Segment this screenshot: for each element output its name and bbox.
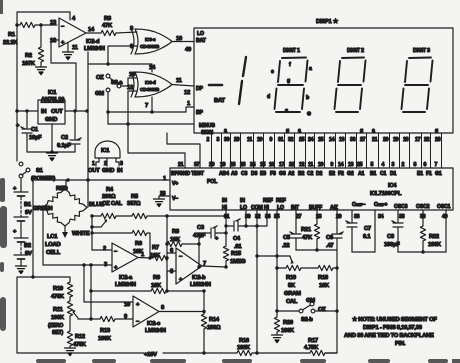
svg-text:a: a	[309, 66, 312, 72]
svg-text:B2: B2	[24, 243, 31, 249]
svg-text:C3: C3	[241, 171, 248, 177]
svg-text:27: 27	[360, 137, 366, 143]
svg-text:E3: E3	[260, 171, 266, 177]
svg-text:IC1: IC1	[48, 90, 57, 96]
svg-text:25: 25	[299, 137, 305, 143]
svg-text:23: 23	[435, 137, 441, 143]
battery B1 9V	[13, 178, 32, 238]
svg-text:9: 9	[270, 137, 273, 143]
svg-text:1: 1	[92, 161, 95, 167]
svg-text:9V: 9V	[25, 210, 32, 216]
svg-text:40: 40	[185, 47, 191, 53]
svg-text:IC2-d: IC2-d	[86, 39, 100, 45]
segment letters digit 1	[267, 62, 312, 114]
resistor R21 47K	[301, 210, 320, 252]
wire GM contact down to minus-sign net	[106, 92, 109, 124]
svg-text:19: 19	[393, 137, 399, 143]
svg-text:MINUS: MINUS	[199, 123, 215, 129]
wire S2-b contacts	[277, 310, 337, 312]
svg-text:OUT: OUT	[88, 168, 100, 174]
ground under R2	[36, 67, 47, 75]
svg-text:+10V: +10V	[144, 352, 157, 358]
svg-text:R22: R22	[429, 234, 439, 240]
display BP pin	[196, 110, 204, 116]
svg-text:15: 15	[318, 137, 324, 143]
svg-text:+: +	[16, 123, 20, 129]
svg-text:24: 24	[250, 162, 256, 168]
svg-text:ICL7106CPL: ICL7106CPL	[370, 191, 402, 197]
resistor R20 100K	[274, 317, 295, 334]
svg-text:BP: BP	[196, 110, 204, 116]
ground pin 11 IC2-d	[63, 43, 74, 60]
wire V+ feed to IC4 pin 1	[33, 176, 170, 182]
svg-text:OUT: OUT	[51, 109, 63, 115]
svg-text:R14: R14	[209, 317, 220, 323]
wire IC2-d output	[86, 32, 101, 34]
IC4 V+ pin 1	[172, 181, 178, 187]
svg-text:A3: A3	[231, 171, 238, 177]
resistor R15 1MEG	[223, 246, 246, 269]
svg-text:PIN.: PIN.	[395, 341, 406, 347]
svg-text:R13: R13	[100, 328, 111, 334]
svg-text:g: g	[360, 128, 363, 134]
resistor R12 475K	[67, 331, 87, 348]
resistor R1 22.1K	[3, 22, 57, 46]
svg-text:GM: GM	[306, 298, 315, 304]
svg-text:LM324N: LM324N	[190, 282, 211, 288]
seven-segment digit 2	[335, 58, 366, 113]
svg-text:27: 27	[296, 214, 302, 220]
svg-text:20: 20	[383, 137, 389, 143]
decimal point dot	[307, 111, 312, 116]
svg-text:0.1µF: 0.1µF	[57, 143, 71, 149]
svg-text:R5: R5	[131, 194, 139, 200]
svg-text:IN: IN	[117, 168, 122, 174]
svg-text:–: –	[179, 254, 183, 260]
svg-text:F3: F3	[270, 171, 276, 177]
svg-text:BP/GND TEST: BP/GND TEST	[171, 171, 205, 177]
svg-text:8: 8	[161, 305, 165, 311]
svg-text:C4: C4	[233, 236, 241, 242]
svg-text:E2: E2	[329, 171, 335, 177]
svg-text:GND: GND	[45, 117, 57, 123]
svg-text:CREF+: CREF+	[374, 202, 388, 208]
svg-text:f: f	[289, 62, 291, 68]
svg-text:37: 37	[194, 162, 200, 168]
wire IC2-b output	[202, 266, 226, 267]
svg-text:LM324N: LM324N	[84, 46, 105, 52]
white lead ground arrow	[62, 226, 68, 238]
regulator IC1 AN78L10	[38, 90, 65, 124]
svg-text:CD4030B: CD4030B	[140, 87, 160, 93]
IC4 V- pin 26 with ground	[154, 191, 179, 207]
svg-text:IN: IN	[240, 198, 245, 204]
resistor R3 47K	[101, 16, 116, 36]
svg-text:12: 12	[299, 162, 305, 168]
svg-text:CREF–: CREF–	[352, 202, 366, 208]
svg-text:LM324N: LM324N	[115, 282, 136, 288]
svg-text:R4: R4	[106, 187, 114, 193]
display minus sign segment	[209, 84, 222, 87]
resistor R7 10K	[138, 245, 169, 261]
svg-text:30: 30	[224, 137, 230, 143]
wire RED lead	[56, 180, 68, 192]
potentiometer R4 200ohm OZ CAL	[92, 187, 123, 227]
svg-text:S2-b: S2-b	[301, 317, 313, 323]
svg-text:7: 7	[145, 103, 148, 109]
svg-text:R6: R6	[135, 241, 143, 247]
wire A/Z column down right side	[325, 250, 339, 353]
svg-text:23: 23	[230, 162, 236, 168]
svg-text:.47: .47	[326, 243, 333, 249]
svg-text:100K: 100K	[98, 336, 112, 342]
wire column pin2 node x92	[90, 216, 112, 250]
wire S2-a common to IC3-d pin 13	[121, 72, 136, 86]
svg-text:10: 10	[124, 302, 130, 308]
svg-text:17: 17	[415, 137, 421, 143]
svg-text:11: 11	[247, 137, 252, 143]
svg-text:4.75K: 4.75K	[304, 345, 319, 351]
svg-text:22: 22	[424, 137, 430, 143]
svg-text:1: 1	[187, 101, 191, 107]
svg-text:LOAD: LOAD	[45, 242, 60, 248]
svg-text:R10: R10	[53, 286, 63, 292]
svg-text:B1: B1	[24, 202, 32, 208]
svg-text:HI: HI	[222, 205, 228, 211]
wire pin35 REF LO column	[275, 210, 278, 317]
svg-text:2: 2	[104, 161, 107, 167]
op-amp IC2-a LM324N	[103, 243, 145, 288]
svg-text:IN: IN	[41, 109, 46, 115]
svg-text:3: 3	[392, 162, 395, 168]
wire y277 to R10	[33, 276, 70, 278]
svg-text:★ NOTE: UNUSED SEGMENT OF: ★ NOTE: UNUSED SEGMENT OF	[352, 316, 437, 323]
svg-text:10: 10	[257, 137, 263, 143]
IC4 segment drive labels	[219, 171, 442, 177]
wire REF LO to COM	[257, 255, 277, 257]
display DP pin	[196, 86, 204, 92]
svg-text:31: 31	[278, 137, 284, 143]
svg-text:3: 3	[120, 161, 123, 167]
potentiometer R19 5K GRAM CAL	[277, 256, 301, 305]
svg-text:BUFF: BUFF	[309, 205, 322, 211]
potentiometer R11 100K ZERO SET	[48, 297, 78, 336]
svg-text:DIGIT 3: DIGIT 3	[413, 48, 430, 54]
svg-text:R21: R21	[301, 227, 312, 233]
wire R19 to R18	[277, 267, 318, 269]
display DIGIT 3	[413, 48, 430, 54]
svg-text:OZ CAL: OZ CAL	[102, 201, 123, 207]
resistor R6 10K feedback	[92, 230, 152, 259]
svg-text:D1: D1	[390, 171, 397, 177]
XOR gate IC3-c CD4030B	[131, 29, 172, 54]
display BAT annunciator	[214, 98, 225, 104]
IC4 top pin numbers row	[178, 162, 438, 168]
seven-segment digit 3	[402, 58, 433, 113]
svg-text:POL: POL	[207, 179, 218, 185]
display digit "1" segments	[239, 57, 246, 104]
svg-text:C3: C3	[197, 225, 205, 231]
svg-text:DIGIT 1: DIGIT 1	[283, 48, 300, 54]
svg-text:IC3-c: IC3-c	[145, 37, 156, 43]
svg-text:REF: REF	[263, 198, 273, 204]
capacitor C2 0.1uF	[57, 111, 81, 152]
svg-text:(ZERO: (ZERO	[48, 323, 63, 329]
svg-text:a: a	[224, 128, 227, 134]
capacitor C4 .01	[224, 219, 258, 250]
svg-text:C6: C6	[326, 235, 334, 241]
svg-text:12: 12	[184, 90, 190, 96]
resistor R8 10K	[167, 229, 201, 247]
svg-text:AND 39 ARE TIED TO BACKPLANE: AND 39 ARE TIED TO BACKPLANE	[344, 333, 434, 339]
svg-text:36: 36	[265, 214, 271, 220]
svg-text:14: 14	[338, 162, 344, 168]
svg-text:R19: R19	[286, 275, 297, 281]
svg-text:AN78L10: AN78L10	[41, 97, 64, 103]
wire pin3 node column x91	[89, 265, 92, 321]
resistor R9 10K	[89, 275, 205, 294]
svg-text:d: d	[267, 94, 270, 100]
svg-text:4: 4	[382, 162, 385, 168]
bridge LC1 LOAD CELL	[33, 189, 104, 256]
capacitor C3 47uF	[193, 225, 228, 242]
svg-text:R20: R20	[283, 320, 293, 326]
svg-text:IC2-a: IC2-a	[119, 275, 133, 281]
svg-text:7: 7	[435, 162, 438, 168]
op-amp IC2-b LM324N	[170, 248, 211, 288]
svg-text:DISP1 - PINS 8,16,37,38: DISP1 - PINS 8,16,37,38	[363, 325, 423, 331]
pin 4 of IC2-d	[72, 16, 76, 22]
svg-text:14: 14	[88, 27, 95, 33]
svg-text:OSC1: OSC1	[437, 204, 451, 210]
svg-text:IC4: IC4	[388, 183, 397, 189]
wire R11 wiper to R13	[78, 318, 100, 320]
svg-text:24: 24	[308, 137, 314, 143]
svg-text:DP: DP	[196, 86, 204, 92]
svg-text:D3: D3	[251, 171, 258, 177]
svg-text:g: g	[435, 128, 438, 134]
svg-text:LO: LO	[197, 31, 204, 37]
svg-text:GND: GND	[102, 168, 114, 174]
wire GM node to display BP pin 1	[108, 101, 194, 112]
svg-text:6: 6	[424, 162, 427, 168]
wire minus sign net y124 to display	[108, 123, 194, 125]
svg-text:IN: IN	[222, 198, 227, 204]
svg-text:OZ: OZ	[318, 307, 326, 313]
svg-text:c: c	[285, 108, 288, 114]
wire ground bus under IC1	[27, 124, 75, 154]
svg-text:D2: D2	[316, 171, 323, 177]
svg-text:CD4030B: CD4030B	[140, 44, 160, 50]
svg-text:A2: A2	[288, 171, 295, 177]
switch S2-a with OZ GM contacts	[95, 74, 123, 97]
ground under R12	[65, 348, 76, 356]
svg-text:8: 8	[414, 162, 417, 168]
wire IC1 input rail	[15, 109, 38, 112]
wire IC3-d output pin 11 to display DP pin 12	[172, 78, 194, 96]
display MINUS SIGN label	[199, 123, 215, 136]
svg-text:33: 33	[354, 214, 360, 220]
wire node column x167	[165, 216, 168, 293]
svg-text:25: 25	[357, 162, 363, 168]
capacitor C7 loop to pin34	[352, 210, 375, 252]
svg-text:18: 18	[403, 137, 409, 143]
svg-text:CAL: CAL	[286, 299, 298, 305]
svg-text:+: +	[215, 236, 219, 242]
svg-text:B1: B1	[370, 171, 377, 177]
svg-text:0.1: 0.1	[363, 234, 371, 240]
svg-text:100K: 100K	[428, 242, 442, 248]
svg-text:18: 18	[240, 162, 246, 168]
wire left rail x17 down to S1	[16, 25, 18, 161]
wire GREEN lead to IC2-a pin 3	[43, 208, 112, 267]
svg-text:C1: C1	[380, 171, 387, 177]
switch S1 POWER	[19, 162, 55, 182]
wire pin33 column with C7	[346, 210, 371, 252]
svg-text:12: 12	[127, 85, 133, 91]
svg-text:OSC3: OSC3	[394, 204, 408, 210]
svg-text:R7: R7	[152, 245, 159, 251]
svg-text:IC2-b: IC2-b	[192, 275, 206, 281]
capacitor C6 .47	[326, 210, 343, 250]
resistor R16 100K on rail	[237, 338, 310, 356]
svg-text:100K: 100K	[51, 315, 65, 321]
capacitor C5 .22	[282, 210, 301, 250]
resistor R14 100ohm	[201, 291, 221, 353]
resistor R13 100K	[98, 314, 133, 342]
svg-text:+: +	[114, 265, 118, 271]
note text unused segments	[344, 316, 437, 347]
svg-text:4: 4	[72, 16, 76, 22]
svg-text:5K: 5K	[288, 283, 296, 289]
IC1 package outline TO-92	[88, 141, 123, 174]
wire display backplane to IC4 pin 37 TEST	[167, 133, 200, 168]
svg-text:V+: V+	[172, 181, 178, 187]
svg-text:13: 13	[50, 20, 57, 26]
svg-text:IC2-c: IC2-c	[147, 321, 161, 327]
svg-text:475K: 475K	[51, 294, 65, 300]
svg-text:10K: 10K	[151, 283, 162, 289]
svg-text:2: 2	[402, 162, 405, 168]
svg-text:22.1K: 22.1K	[3, 40, 18, 46]
svg-text:BAT: BAT	[196, 38, 207, 44]
wire IC2-c output to R14 node	[159, 310, 206, 313]
svg-text:a: a	[372, 128, 375, 134]
svg-text:F2: F2	[338, 171, 344, 177]
wire column x199 C3/R8 node to output	[197, 233, 200, 269]
wire IC3-c output pin 10 to display LO BAT pin 40	[172, 36, 194, 53]
svg-text:13: 13	[339, 137, 345, 143]
svg-text:GRAM: GRAM	[284, 291, 301, 297]
svg-text:100Ω: 100Ω	[207, 325, 221, 331]
wire pin 12 feedback to +10V node	[51, 40, 76, 111]
svg-text:DIGIT 2: DIGIT 2	[347, 48, 364, 54]
svg-text:–: –	[114, 249, 118, 255]
wire bottom +10V rail	[17, 351, 237, 358]
svg-text:+: +	[13, 229, 17, 235]
svg-text:475K: 475K	[73, 342, 87, 348]
svg-text:100K: 100K	[237, 345, 251, 351]
wire pin38 column with C8	[384, 210, 403, 252]
resistor R18 10K	[318, 265, 337, 289]
svg-text:1: 1	[163, 176, 167, 182]
wire C5/R21/C6 bottom bus	[296, 249, 337, 251]
svg-text:(POWER): (POWER)	[31, 176, 55, 182]
wire IC3-d pin 7 down to BP net	[145, 97, 154, 114]
svg-text:–: –	[61, 24, 65, 30]
svg-text:R15: R15	[231, 251, 242, 257]
svg-text:10: 10	[176, 36, 182, 42]
svg-text:36: 36	[350, 137, 356, 143]
svg-text:C2: C2	[61, 135, 68, 141]
wire VDD net y64	[88, 52, 152, 72]
svg-text:100pF: 100pF	[384, 242, 400, 248]
op-amp IC2-d LM324N	[50, 18, 105, 52]
svg-text:3: 3	[217, 137, 220, 143]
svg-text:g: g	[287, 78, 290, 84]
svg-text:21: 21	[372, 137, 378, 143]
seven-segment digit 1	[275, 58, 308, 113]
svg-text:5: 5	[170, 269, 174, 275]
wire IC3-c pin 9 input	[108, 44, 137, 64]
svg-text:C2: C2	[307, 171, 314, 177]
resistor R5 357ohm	[90, 194, 226, 219]
display LO BAT pin 40	[196, 31, 207, 44]
svg-text:G2: G2	[347, 171, 354, 177]
wire V+ rail top-left	[17, 12, 70, 25]
svg-text:.01: .01	[234, 244, 242, 250]
svg-text:C5: C5	[283, 235, 291, 241]
svg-text:R12: R12	[75, 334, 85, 340]
svg-text:17: 17	[279, 162, 285, 168]
svg-text:g: g	[286, 128, 289, 134]
svg-text:S2-a: S2-a	[111, 80, 123, 86]
IC4 bottom labels	[222, 198, 451, 211]
svg-text:22: 22	[289, 162, 295, 168]
resistor R17 4.75K on rail	[304, 338, 337, 356]
display pin numbers row	[207, 128, 441, 143]
display DIGIT 1	[283, 48, 300, 54]
svg-text:C1: C1	[31, 127, 39, 133]
svg-text:INT: INT	[291, 205, 300, 211]
svg-text:C8: C8	[387, 234, 395, 240]
wire pin36 REF HI jog	[257, 210, 267, 226]
svg-text:S1: S1	[36, 168, 44, 174]
svg-text:C7: C7	[364, 226, 371, 232]
svg-text:+: +	[61, 40, 65, 46]
svg-text:R3: R3	[104, 16, 112, 22]
switch S2-b GM/OZ	[299, 298, 326, 323]
svg-text:47K: 47K	[302, 235, 313, 241]
svg-text:CELL: CELL	[46, 250, 61, 256]
svg-text:DISP1 ★: DISP1 ★	[316, 18, 339, 25]
svg-text:15: 15	[260, 162, 266, 168]
svg-text:G3: G3	[279, 171, 286, 177]
load cell box outline	[32, 180, 34, 277]
wire +10V vertical rail x88	[86, 64, 89, 207]
capacitor C1 10uF	[16, 111, 42, 152]
svg-text:32: 32	[288, 137, 294, 143]
wire pin40 OSC1 loop	[398, 210, 446, 252]
svg-text:10: 10	[318, 162, 324, 168]
svg-text:BAT: BAT	[214, 98, 225, 104]
svg-text:R17: R17	[308, 338, 318, 344]
wire pin31 IN HI column	[224, 210, 227, 246]
wire IC2-b pin 6 stub	[167, 248, 176, 254]
svg-text:AB4: AB4	[219, 171, 229, 177]
wire IC1 output rail	[65, 109, 89, 112]
svg-text:357Ω: 357Ω	[127, 201, 141, 207]
